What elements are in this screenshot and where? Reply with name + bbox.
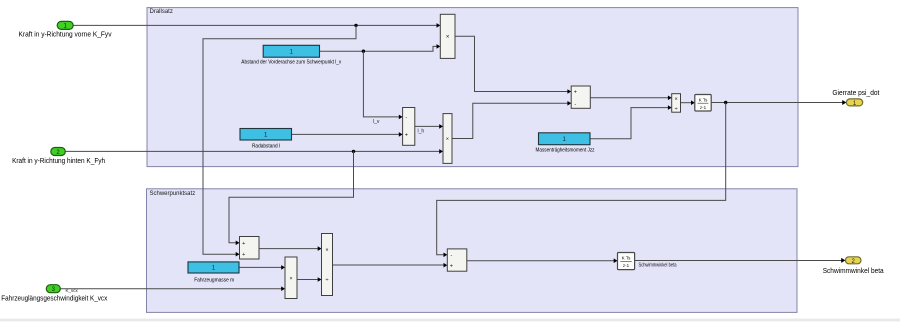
svg-text:Kraft in y-Richtung vorne K_Fy: Kraft in y-Richtung vorne K_Fyv: [19, 32, 112, 39]
discrete transfer fcn TF1 K Ts over z-1: [695, 95, 711, 112]
product block Product1: [440, 14, 455, 58]
wire J2 down to Sum1 minus input, net l_v: [363, 51, 402, 125]
svg-text:+: +: [242, 252, 245, 258]
svg-text:÷: ÷: [325, 278, 328, 284]
svg-text:Gierrate psi_dot: Gierrate psi_dot: [832, 90, 879, 97]
svg-text:K Ts: K Ts: [699, 97, 708, 102]
svg-text:z-1: z-1: [623, 263, 630, 268]
svg-text:-: -: [450, 253, 452, 259]
svg-text:-: -: [405, 115, 407, 121]
svg-text:×: ×: [446, 137, 449, 143]
wire Sum1 to Product2 input1, net l_h: [415, 124, 443, 134]
wire Gain2 to Sum1 plus input: [292, 132, 403, 137]
wire Divide2 to Sum4 plus input: [333, 263, 448, 268]
svg-text:Radabstand l: Radabstand l: [252, 144, 280, 150]
svg-text:l_v: l_v: [373, 119, 380, 125]
svg-text:÷: ÷: [675, 106, 678, 112]
svg-text:l_h: l_h: [418, 128, 425, 134]
svg-text:Drallsatz: Drallsatz: [150, 9, 173, 15]
wire Gain3 to Divide1 divide input: [590, 105, 672, 138]
gain block Abstand der Vorderachse zum Schwerpunkt l_v: [241, 45, 341, 65]
svg-text:+: +: [574, 89, 577, 95]
subsystem area Drallsatz: [147, 8, 798, 167]
wire TF1 to Out1: [711, 100, 846, 105]
wire TF2 to Out2: [635, 258, 846, 263]
output port 1 Gierrate psi_dot: [832, 90, 879, 107]
wire Gain4 to Product3 input1: [239, 265, 285, 270]
svg-text:×: ×: [674, 97, 677, 103]
wire Divide1 to TF1: [681, 100, 695, 105]
svg-text:×: ×: [289, 276, 292, 282]
input port 2 Kraft in y-Richtung hinten K_Fyh: [12, 148, 105, 165]
wire Sum4 to TF2: [467, 258, 618, 263]
svg-text:Massenträgheitsmoment Jzz: Massenträgheitsmoment Jzz: [536, 148, 595, 154]
wire Product1 to Sum2 plus input: [455, 36, 571, 93]
svg-text:Schwerpunktsatz: Schwerpunktsatz: [150, 191, 196, 197]
divide block Divide1: [672, 94, 681, 113]
svg-text:+: +: [450, 263, 453, 269]
svg-text:Fahrzeugmasse m: Fahrzeugmasse m: [194, 278, 234, 284]
svg-text:Schwimmwinkel beta: Schwimmwinkel beta: [823, 268, 884, 275]
sum block Sum2 subtract: [571, 86, 590, 108]
wire Sum3 to Divide2 times input: [259, 246, 322, 251]
subsystem area Schwerpunktsatz: [147, 189, 798, 313]
wire In1 to Product1 input1: [73, 23, 440, 28]
svg-text:Abstand der Vorderachse zum Sc: Abstand der Vorderachse zum Schwerpunkt …: [241, 60, 341, 66]
node junction J4: [724, 101, 727, 104]
discrete transfer fcn TF2 K Ts over z-1, Schwimmwinkel beta: [618, 253, 677, 270]
svg-text:×: ×: [446, 34, 450, 40]
svg-text:+: +: [242, 241, 245, 247]
wire Product3 to Divide2 divide input: [297, 277, 322, 282]
gain block Massentraegheitsmoment Jzz: [536, 133, 595, 154]
wire J1 down-left-down to Sum3 input2: [203, 25, 356, 256]
node junction J1: [354, 24, 357, 27]
svg-text:Schwimmwinkel beta: Schwimmwinkel beta: [639, 262, 677, 268]
svg-text:×: ×: [325, 247, 328, 253]
svg-text:Kraft in y-Richtung hinten K_F: Kraft in y-Richtung hinten K_Fyh: [12, 158, 105, 165]
svg-text:K Ts: K Ts: [622, 256, 631, 261]
svg-text:Fahrzeuglängsgeschwindigkeit K: Fahrzeuglängsgeschwindigkeit K_vcx: [1, 296, 107, 303]
sum block Sum3 add: [240, 237, 260, 260]
product block Product2: [443, 114, 452, 164]
wire J3 down-left-down to Sum3 input1: [229, 151, 354, 245]
gain block Radabstand l: [240, 129, 292, 150]
output port 2 Schwimmwinkel beta: [823, 257, 884, 275]
node junction J3: [352, 150, 355, 153]
svg-text:z-1: z-1: [700, 105, 707, 110]
product block Product3: [285, 257, 297, 299]
wire Product2 to Sum2 minus input: [452, 101, 571, 139]
svg-text:K_vcx: K_vcx: [66, 288, 79, 293]
svg-text:-: -: [574, 101, 576, 107]
divide block Divide2: [322, 234, 333, 296]
input port 1 Kraft in y-Richtung vorne K_Fyv: [19, 21, 112, 38]
wire Gain1 to Product1 input2: [320, 44, 441, 51]
wire J4 down-left-down to Sum4 minus input: [437, 103, 726, 258]
node junction J2: [362, 50, 365, 53]
wire In2 to Product2 input2: [63, 149, 443, 154]
gain block Fahrzeugmasse m: [188, 262, 239, 284]
bottom cut-off blur strip: [0, 319, 900, 322]
sum block Sum1 l minus l_v: [403, 108, 415, 146]
svg-text:+: +: [405, 133, 408, 139]
input port 3 Fahrzeuglaengsgeschwindigkeit K_vcx: [1, 285, 107, 303]
sum block Sum4 subtract: [447, 249, 467, 271]
wire In3 to Product3 input2, net K_vcx: [60, 286, 285, 293]
wire Sum2 to Divide1 times input: [590, 96, 671, 101]
